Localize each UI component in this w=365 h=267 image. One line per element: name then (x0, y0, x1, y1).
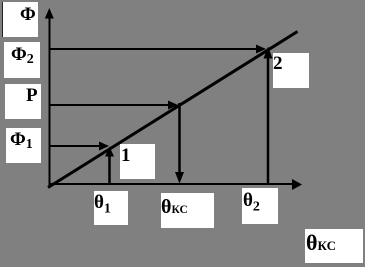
label box P (5, 84, 41, 119)
label box Phi1 (6, 128, 41, 163)
P horizontal arrow (50, 104, 169, 106)
x-axis arrowhead (292, 179, 302, 190)
phi2 horizontal arrow (50, 48, 257, 50)
label box point 2 (273, 53, 309, 88)
y-axis arrowhead (45, 8, 54, 19)
label box point 1 (120, 144, 155, 179)
label box Phi2 (4, 42, 40, 78)
label box theta1 (94, 191, 128, 225)
label box theta2 (242, 188, 278, 224)
diagonal characteristic line (48, 32, 298, 188)
down arrow theta-ks (178, 103, 181, 174)
label box Phi (y-axis title) (2, 2, 38, 37)
label box theta-KS (x-axis) (161, 193, 214, 228)
up arrow at point 1 (108, 155, 111, 184)
label box theta-KS (bottom right) (305, 229, 363, 263)
x-axis line (49, 183, 294, 185)
y-axis line (49, 17, 51, 186)
phi1 horizontal arrow (50, 145, 100, 147)
up arrow at point 2 (267, 56, 270, 184)
